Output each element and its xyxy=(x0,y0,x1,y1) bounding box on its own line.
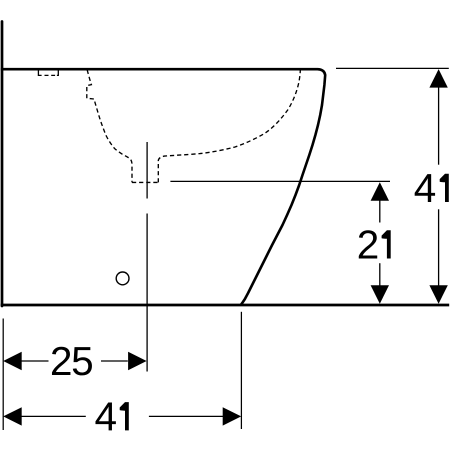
extension line top right (41) xyxy=(336,67,449,69)
extension line bottom left xyxy=(2,319,4,431)
dimension 25: label xyxy=(52,347,70,375)
dimension 21: label xyxy=(359,230,377,258)
dimension 41 right: bottom arrow xyxy=(429,285,447,304)
dimension 41 right: top arrow xyxy=(429,69,447,88)
drain hole circle xyxy=(116,272,129,285)
bowl inner contour left (dashed) xyxy=(87,70,132,182)
floor line xyxy=(1,304,450,307)
fixing hole dashed rectangle xyxy=(38,70,58,76)
dimension 41 bottom: right arrow xyxy=(223,407,242,425)
drain bottom dashed xyxy=(132,181,158,183)
dimension 41 bottom: label xyxy=(95,403,115,431)
dimension 41 right: line segments xyxy=(438,87,440,165)
dimension 25: line segments xyxy=(21,360,49,362)
centerline upper segment xyxy=(146,142,148,199)
wall line xyxy=(1,22,4,307)
extension line for 21 xyxy=(170,180,390,182)
dimension 21: line segments xyxy=(379,201,381,223)
dimension 41 bottom: left arrow xyxy=(3,407,22,425)
dimension 25: right arrow xyxy=(128,352,147,370)
dimension 41 bottom: line segments xyxy=(21,415,86,417)
bowl inner contour right (dashed) xyxy=(158,70,300,183)
dimension 25: left arrow xyxy=(3,352,22,370)
dimension 21: top arrow xyxy=(371,182,389,201)
bidet top surface and back edge xyxy=(1,69,325,304)
dimension 41 right: label xyxy=(415,174,435,202)
centerline lower segment / extension line for 25 xyxy=(146,214,148,372)
dimension 21: bottom arrow xyxy=(371,285,389,304)
extension line bottom right (41) xyxy=(240,312,242,429)
